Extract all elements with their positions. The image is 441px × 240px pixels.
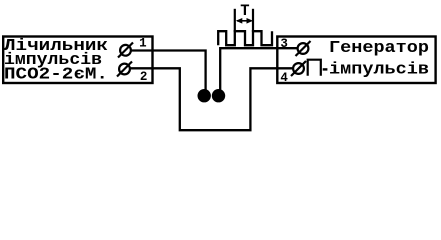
svg-text:2: 2	[140, 70, 148, 84]
svg-text:4: 4	[280, 71, 288, 85]
svg-text:3: 3	[280, 37, 288, 51]
svg-text:1: 1	[139, 37, 147, 51]
svg-text:імпульсів: імпульсів	[329, 60, 429, 79]
svg-text:Генератор: Генератор	[329, 39, 429, 58]
svg-text:ПСО2-2єМ.: ПСО2-2єМ.	[4, 65, 108, 84]
svg-text:T: T	[240, 2, 249, 20]
